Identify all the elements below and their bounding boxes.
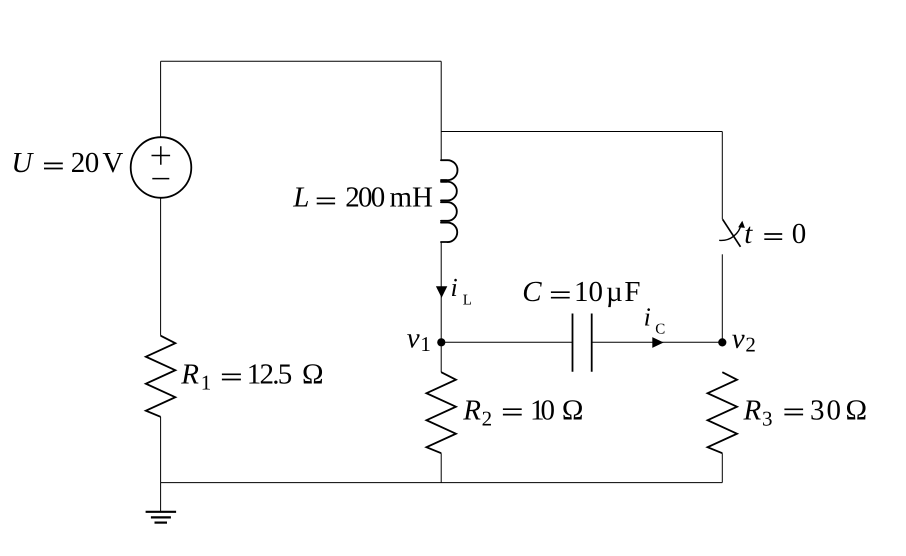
svg-text:µF: µF <box>606 276 641 308</box>
svg-text:mH: mH <box>390 182 434 214</box>
svg-text:i: i <box>644 303 651 332</box>
svg-text:10: 10 <box>574 276 603 308</box>
wire top loop1: left top corner to middle branch <box>161 60 442 62</box>
svg-text:R: R <box>180 358 199 390</box>
svg-text:10: 10 <box>530 394 555 426</box>
voltage source U1 circle <box>131 137 192 198</box>
switch motion arc with arrow <box>719 221 745 241</box>
wire R2 to bottom rail <box>440 453 442 482</box>
wire left branch middle: source to R1 <box>160 198 162 336</box>
svg-text:i: i <box>451 273 458 302</box>
label R3 = 30 Ohm <box>743 394 868 430</box>
wire R3 to bottom rail <box>721 453 723 482</box>
current arrow iL <box>436 286 447 298</box>
svg-text:L: L <box>292 182 309 214</box>
svg-text:v: v <box>407 323 420 355</box>
node v2 <box>718 338 726 346</box>
label U = 20 V <box>11 147 123 179</box>
current arrow iC <box>652 337 663 348</box>
capacitor C1 plates <box>573 314 592 372</box>
svg-text:Ω: Ω <box>302 358 324 390</box>
resistor R3 zigzag <box>708 372 737 453</box>
wire node v1 to capacitor <box>441 341 572 343</box>
svg-text:L: L <box>463 293 472 309</box>
wire right branch: switch to node v2 <box>721 254 723 342</box>
label R2 = 10 Ohm <box>462 394 583 430</box>
plus sign of source <box>152 146 171 165</box>
wire middle branch upper: top rail down to inductor <box>440 61 442 160</box>
wire second rail: middle branch to right branch <box>441 131 722 133</box>
label C = 10 uF <box>522 276 640 308</box>
resistor R1 zigzag <box>146 336 175 417</box>
svg-text:200: 200 <box>345 182 385 214</box>
node v1 <box>437 338 445 346</box>
wire bottom rail <box>161 482 723 484</box>
svg-text:2: 2 <box>482 406 493 430</box>
svg-text:Ω: Ω <box>846 394 868 426</box>
ground symbol <box>146 483 177 523</box>
svg-text:C: C <box>655 322 665 338</box>
svg-text:20: 20 <box>71 147 100 179</box>
wire node v1 to R2 <box>440 342 442 372</box>
svg-text:R: R <box>743 394 762 426</box>
svg-text:12.5: 12.5 <box>247 358 292 390</box>
resistor R2 zigzag <box>427 372 456 453</box>
inductor L1 coils <box>441 160 457 242</box>
minus sign of source <box>152 178 169 180</box>
wire right branch upper: rail to switch <box>721 132 723 220</box>
svg-text:R: R <box>462 394 481 426</box>
svg-text:0: 0 <box>792 218 807 250</box>
svg-text:C: C <box>522 276 542 308</box>
svg-text:30: 30 <box>810 394 841 426</box>
svg-text:V: V <box>102 147 123 179</box>
wire middle branch: inductor to node v1 <box>440 242 442 342</box>
wire left branch upper: top corner down to source <box>160 61 162 137</box>
svg-text:U: U <box>11 147 34 179</box>
wire left branch lower: R1 to bottom rail <box>160 417 162 483</box>
svg-text:3: 3 <box>762 406 773 430</box>
svg-text:v: v <box>732 323 745 355</box>
label t = 0 <box>744 218 806 250</box>
svg-text:1: 1 <box>201 370 212 394</box>
label L = 200 mH <box>292 182 433 214</box>
switch SW1 blade <box>723 219 741 247</box>
svg-text:Ω: Ω <box>562 394 584 426</box>
wire capacitor to node v2 <box>592 341 723 343</box>
svg-text:1: 1 <box>420 332 431 356</box>
svg-text:2: 2 <box>745 333 756 357</box>
label R1 = 12.5 Ohm <box>180 358 323 394</box>
svg-text:t: t <box>744 218 753 250</box>
